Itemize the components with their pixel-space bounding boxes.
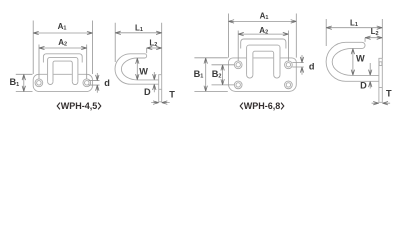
- hook wire profile side: [326, 42, 379, 81]
- hook contour inner front: [53, 61, 72, 82]
- arrowhead L2L left: [147, 46, 153, 49]
- mounting plate side: [379, 58, 382, 102]
- hook contour outer front: [241, 39, 286, 49]
- arrowhead L2R right: [377, 36, 383, 39]
- arrowhead L2L right: [156, 46, 162, 49]
- arrowhead L1L left: [115, 31, 121, 34]
- hook contour outer front: [43, 54, 82, 63]
- arrowhead DR bottom: [369, 82, 372, 88]
- hole right inner: [85, 81, 90, 86]
- dimension L1 left: line: [115, 32, 162, 34]
- hook contour middle front: [48, 57, 78, 81]
- dimension d right: leader lines: [292, 63, 304, 67]
- dimension A1 left: extension lines: [33, 21, 92, 75]
- arrowhead A1L left: [33, 31, 39, 34]
- dimension A2 right: line: [238, 33, 288, 35]
- arrowhead A2R right: [283, 32, 289, 35]
- arrowhead TL right: [162, 101, 168, 104]
- arrowhead A1L right: [87, 31, 93, 34]
- svg-text:WPH-6,8: WPH-6,8: [244, 101, 281, 111]
- arrowhead B1R top: [204, 58, 207, 64]
- hole top-left inner: [236, 63, 240, 67]
- dimension D right: arrow stems: [369, 63, 371, 89]
- dimension A2 right: extension lines: [238, 31, 288, 61]
- svg-text:D: D: [144, 87, 151, 97]
- dimension L2 left: line: [147, 47, 162, 49]
- hole top-right outer: [285, 61, 293, 69]
- leg crossing mask left-front left: [47, 74, 53, 76]
- svg-text:A1: A1: [58, 22, 67, 32]
- caption left bracket close: [98, 103, 101, 110]
- arrowhead WR bottom: [351, 70, 354, 76]
- dimension L2 right: extension line: [364, 38, 366, 42]
- dimension B2 right: line: [222, 65, 224, 85]
- svg-text:A2: A2: [259, 26, 268, 36]
- dimension B1 right: line: [205, 58, 207, 91]
- arrowhead L1R left: [326, 26, 332, 29]
- dimension L2 right: line: [365, 37, 382, 39]
- svg-text:A2: A2: [58, 38, 67, 48]
- hole left inner: [37, 81, 42, 86]
- svg-text:W: W: [139, 67, 148, 77]
- left leg bottom cap: [247, 75, 253, 78]
- dimension A2 left: line: [39, 47, 87, 49]
- svg-text:B2: B2: [212, 69, 222, 80]
- dimension L2 left: extension line: [146, 48, 148, 53]
- hole top-right inner: [286, 63, 290, 67]
- dimension T right: arrow stems: [372, 102, 391, 104]
- svg-text:d: d: [309, 62, 315, 72]
- dimension A1 right: line: [229, 20, 297, 22]
- arrowhead A2L right: [81, 46, 87, 49]
- arrowhead dL top: [96, 75, 99, 81]
- leg crossing mask left-front right: [72, 74, 78, 76]
- svg-text:L1: L1: [135, 24, 143, 34]
- arrowhead B1L top: [22, 75, 25, 81]
- hole bottom-right outer: [285, 81, 293, 89]
- arrowhead dR bottom: [300, 67, 303, 73]
- arrowhead L1R right: [377, 26, 383, 29]
- dimension B1 left: extension lines: [16, 74, 33, 91]
- arrowhead B2R top: [221, 65, 224, 71]
- svg-text:L2: L2: [371, 27, 379, 37]
- right leg bottom cap: [72, 82, 78, 85]
- plate outline: [229, 58, 297, 92]
- hole right outer: [83, 79, 91, 87]
- dimension d right: arrow stems: [301, 55, 303, 75]
- arrowhead L2R left: [365, 36, 371, 39]
- arrowhead A2R left: [238, 32, 244, 35]
- dimension B1 right: extension lines: [194, 58, 227, 92]
- dimension L1 right: line: [326, 27, 382, 29]
- plate hole mark: [159, 88, 162, 90]
- dimension A1 right: extension lines: [229, 14, 297, 58]
- arrowhead WL bottom: [136, 74, 139, 80]
- arrowhead B2R bottom: [221, 79, 224, 85]
- svg-text:T: T: [169, 89, 175, 99]
- arrowhead TL left: [153, 101, 159, 104]
- arrowhead dR top: [300, 57, 303, 63]
- arrowhead A1R right: [291, 20, 297, 23]
- arrowhead DL bottom: [153, 84, 156, 90]
- caption left bracket open: [57, 103, 60, 110]
- svg-text:L2: L2: [149, 39, 157, 49]
- hook contour middle front: [247, 45, 280, 75]
- leg crossing mask right-front left: [246, 57, 253, 59]
- arrowhead dL bottom: [96, 85, 99, 91]
- plate outline: [33, 74, 92, 91]
- svg-text:T: T: [386, 89, 392, 99]
- svg-text:d: d: [104, 78, 110, 88]
- dimension d left: arrow stems: [96, 73, 98, 93]
- arrowhead B1L bottom: [22, 86, 25, 92]
- arrowhead A2L left: [39, 46, 45, 49]
- svg-text:WPH-4,5: WPH-4,5: [61, 101, 98, 111]
- svg-text:L1: L1: [350, 18, 358, 28]
- hole left outer: [35, 79, 43, 87]
- dimension W right: line: [352, 49, 354, 76]
- dimension L1 left: extension lines: [115, 23, 162, 74]
- arrowhead B1R bottom: [204, 86, 207, 92]
- plate hole mark lower: [379, 87, 382, 89]
- caption right bracket close: [281, 103, 284, 110]
- dimension B1 left: line: [23, 75, 25, 92]
- arrowhead DR top: [369, 70, 372, 76]
- caption right bracket open: [240, 103, 243, 110]
- dimension A2 left: extension lines: [39, 45, 87, 79]
- dimension L1 right: extension lines: [326, 19, 382, 58]
- hook contour inner front: [253, 51, 274, 75]
- leg crossing mask right-front right: [273, 57, 280, 59]
- svg-text:B1: B1: [194, 69, 204, 80]
- dimension D left: arrow stems: [153, 72, 155, 92]
- svg-text:W: W: [356, 53, 365, 63]
- svg-text:B1: B1: [10, 77, 20, 88]
- arrowhead WR top: [351, 49, 354, 55]
- svg-text:D: D: [360, 80, 367, 90]
- hole bottom-left inner: [236, 83, 240, 87]
- dimension A1 left: line: [33, 32, 92, 34]
- hook wire profile side: [115, 54, 159, 84]
- dimension d left: leader lines: [89, 81, 100, 86]
- hole bottom-right inner: [286, 83, 290, 87]
- hole bottom-left outer: [234, 81, 242, 89]
- arrowhead WL top: [136, 58, 139, 64]
- arrowhead TR left: [373, 102, 379, 105]
- arrowhead A1R left: [229, 20, 235, 23]
- dimension W left: line: [136, 58, 138, 79]
- arrowhead DL top: [153, 74, 156, 80]
- plate hole slot mark: [379, 62, 382, 66]
- dimension B2 right: extension lines: [212, 65, 235, 85]
- dimension T left: arrow stems: [151, 102, 170, 104]
- arrowhead TR right: [382, 102, 388, 105]
- arrowhead L1L right: [156, 31, 162, 34]
- mounting plate side: [159, 75, 162, 102]
- left leg bottom cap: [48, 82, 53, 85]
- svg-text:A1: A1: [260, 11, 269, 21]
- right leg bottom cap: [274, 75, 280, 78]
- hole top-left outer: [234, 61, 242, 69]
